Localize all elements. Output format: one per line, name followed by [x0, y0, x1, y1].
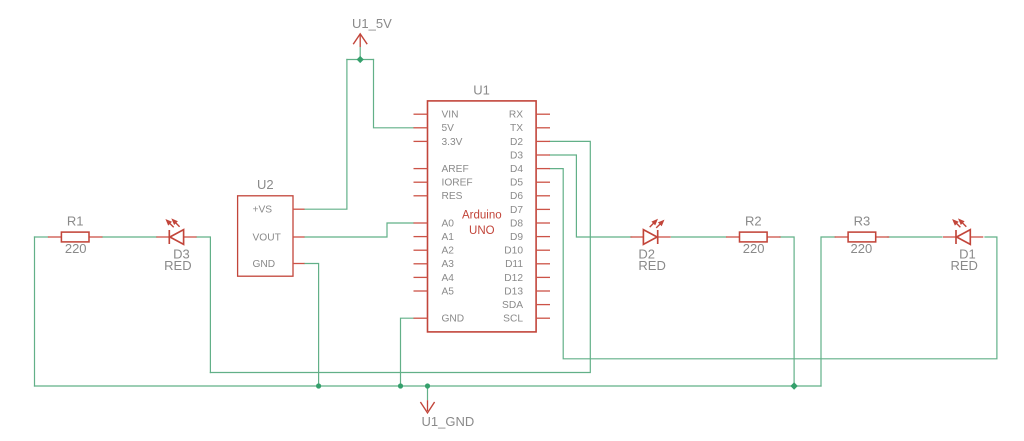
- U1 left pin A1: [414, 232, 455, 243]
- LED D3: [156, 218, 196, 244]
- wire D3 loop to U1 pin D2: [210, 141, 590, 372]
- svg-text:D11: D11: [505, 259, 523, 270]
- svg-text:D4: D4: [510, 164, 523, 175]
- svg-text:GND: GND: [442, 314, 465, 325]
- svg-text:R2: R2: [745, 214, 762, 229]
- U1 left pin A5: [414, 286, 455, 297]
- svg-text:+VS: +VS: [253, 205, 273, 216]
- U1 left pin A3: [414, 259, 455, 270]
- ground symbol U1_GND: [421, 386, 434, 413]
- svg-text:D10: D10: [504, 246, 523, 257]
- wire R3 to D1: [888, 236, 943, 238]
- svg-text:TX: TX: [510, 123, 523, 134]
- svg-text:RX: RX: [509, 110, 523, 121]
- IC U1 body (Arduino UNO): [428, 101, 537, 332]
- U1 right pin D10: [504, 246, 550, 257]
- U1 right pin D2: [510, 137, 550, 148]
- svg-text:U1: U1: [473, 83, 490, 98]
- U2 pin GND: [253, 259, 305, 270]
- svg-text:220: 220: [743, 241, 765, 256]
- svg-text:IOREF: IOREF: [442, 178, 473, 189]
- U1 right pin D5: [510, 178, 550, 189]
- U1 right pin D13: [504, 286, 550, 297]
- IC U2 body: [238, 196, 293, 276]
- U1 right pin D3: [510, 150, 550, 161]
- U1 right pin D12: [504, 273, 550, 284]
- wire U1 pin D4 to D1 cathode loop: [550, 169, 997, 359]
- svg-text:D2: D2: [510, 137, 523, 148]
- svg-text:A0: A0: [442, 218, 455, 229]
- wire ground bus: [35, 385, 822, 387]
- svg-text:SCL: SCL: [503, 314, 523, 325]
- U1 left pin A4: [414, 273, 455, 284]
- svg-text:RED: RED: [950, 258, 977, 273]
- svg-text:D5: D5: [510, 178, 523, 189]
- wire R3 left down to ground: [821, 237, 835, 386]
- svg-text:D6: D6: [510, 191, 523, 202]
- svg-text:U1_5V: U1_5V: [352, 16, 392, 31]
- svg-text:3.3V: 3.3V: [442, 137, 463, 148]
- U1 left pin IOREF: [414, 178, 473, 189]
- U1 left pin AREF: [414, 164, 469, 175]
- svg-text:D3: D3: [510, 150, 523, 161]
- wire U1 GND down to ground bus: [401, 318, 414, 386]
- svg-text:SDA: SDA: [502, 300, 523, 311]
- U1 right pin SDA: [502, 300, 550, 311]
- U1 left pin GND: [414, 314, 465, 325]
- wire U2 GND down to ground bus: [305, 264, 319, 387]
- svg-text:D7: D7: [510, 205, 523, 216]
- wire R2 down to ground: [780, 237, 794, 386]
- U1 right pin D8: [510, 218, 550, 229]
- svg-text:RES: RES: [442, 191, 463, 202]
- svg-text:A3: A3: [442, 259, 455, 270]
- resistor R1: [48, 232, 103, 242]
- U1 left pin RES: [414, 191, 463, 202]
- svg-text:D9: D9: [510, 232, 523, 243]
- label Arduino UNO: [462, 210, 502, 238]
- U1 right pin TX: [510, 123, 550, 134]
- wire D2 to R2: [671, 236, 726, 238]
- U1 right pin D9: [510, 232, 550, 243]
- U1 right pin D4: [510, 164, 550, 175]
- LED D2: [630, 219, 670, 245]
- junction dot U2 GND / ground bus: [316, 383, 321, 388]
- U1 right pin RX: [509, 110, 550, 121]
- LED D1: [943, 218, 983, 244]
- svg-text:VIN: VIN: [442, 110, 459, 121]
- resistor R2: [726, 232, 781, 242]
- U1 left pin 5V: [414, 123, 455, 134]
- svg-text:AREF: AREF: [442, 164, 469, 175]
- svg-text:D12: D12: [504, 273, 523, 284]
- junction diamond R2 / ground bus: [790, 382, 797, 389]
- wire 5V rail bridge: [347, 59, 374, 61]
- junction dot ground symbol tap: [425, 383, 430, 388]
- wire U2 +VS up to 5V rail: [305, 60, 347, 210]
- svg-text:RED: RED: [164, 258, 191, 273]
- svg-text:D13: D13: [504, 286, 523, 297]
- U1 right pin SCL: [503, 314, 550, 325]
- U1 left pin A2: [414, 246, 455, 257]
- wire R1 left to ground corner: [35, 236, 48, 238]
- resistor R3: [835, 232, 890, 242]
- wire R1 to D3: [102, 236, 156, 238]
- wire left vertical down: [34, 237, 36, 386]
- svg-text:A5: A5: [442, 286, 455, 297]
- svg-text:A2: A2: [442, 246, 455, 257]
- wire 5V rail down to U1 5V pin: [374, 60, 414, 128]
- U2 pin VOUT: [253, 232, 305, 243]
- svg-text:R1: R1: [67, 214, 84, 229]
- svg-text:U1_GND: U1_GND: [422, 414, 475, 429]
- U1 left pin A0: [414, 218, 455, 229]
- svg-text:A4: A4: [442, 273, 455, 284]
- wire U2 VOUT to U1 A0: [305, 223, 414, 237]
- svg-text:Arduino: Arduino: [462, 210, 502, 222]
- svg-text:220: 220: [851, 241, 873, 256]
- svg-text:R3: R3: [854, 214, 871, 229]
- power symbol U1_5V: [354, 34, 367, 60]
- svg-text:VOUT: VOUT: [253, 232, 281, 243]
- svg-text:5V: 5V: [442, 123, 455, 134]
- svg-text:220: 220: [65, 241, 87, 256]
- svg-text:RED: RED: [638, 258, 665, 273]
- svg-text:U2: U2: [257, 177, 274, 192]
- U1 right pin D7: [510, 205, 550, 216]
- svg-text:GND: GND: [253, 259, 276, 270]
- junction dot U1 GND / ground bus: [398, 383, 403, 388]
- wire U1 pin D3 to D2 anode: [550, 155, 632, 237]
- U1 right pin D6: [510, 191, 550, 202]
- svg-text:UNO: UNO: [469, 225, 495, 237]
- junction diamond 5V node: [357, 56, 364, 63]
- U1 right pin D11: [505, 259, 550, 270]
- svg-text:D8: D8: [510, 218, 523, 229]
- svg-text:A1: A1: [442, 232, 455, 243]
- U2 pin +VS: [253, 205, 305, 216]
- U1 left pin 3.3V: [414, 137, 463, 148]
- wire D3 right corner down: [196, 237, 210, 373]
- U1 left pin VIN: [414, 110, 459, 121]
